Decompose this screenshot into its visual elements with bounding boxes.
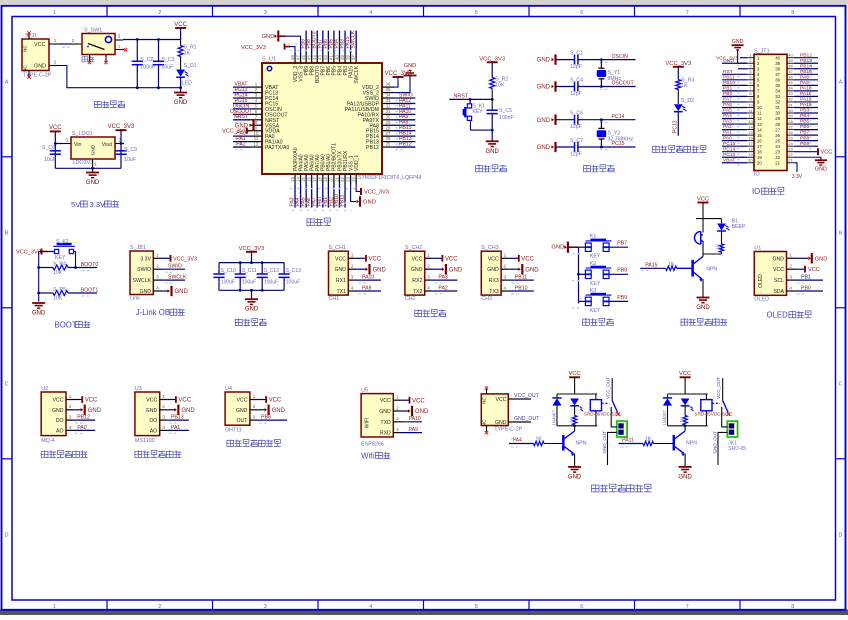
svg-text:1: 1	[118, 43, 121, 48]
pin 29 S_JT1	[787, 118, 794, 120]
pin 8 S_JT1	[747, 95, 754, 97]
wire GND JT1 pin2	[738, 50, 747, 63]
svg-text:KEY: KEY	[472, 109, 483, 115]
node PA1 U3	[168, 429, 189, 431]
svg-text:GND: GND	[525, 267, 539, 273]
pin 38 S_JT1	[787, 68, 794, 70]
pin 25 S_U1 PB12	[382, 146, 394, 148]
svg-text:PC13: PC13	[723, 152, 736, 158]
wire net PB14 right	[394, 135, 415, 137]
pin 3 S_U1 PC14	[250, 97, 262, 99]
pin 10 S_JT1	[747, 106, 754, 108]
svg-text:2: 2	[253, 404, 256, 409]
pin 1 S_SW1 unconnected	[115, 49, 124, 51]
relay contact PA11	[722, 378, 724, 400]
node PA2	[432, 290, 457, 292]
svg-text:4: 4	[69, 425, 72, 430]
svg-text:KEY: KEY	[55, 255, 66, 261]
svg-text:S_C1: S_C1	[570, 50, 583, 56]
pin 28 S_U1 PB15	[382, 130, 394, 132]
pin 3 S_JT1	[747, 68, 754, 70]
header S_JT1 40-pin	[754, 54, 787, 170]
svg-text:1N4007: 1N4007	[662, 410, 667, 426]
title main chip	[307, 218, 314, 225]
wire emitter PA11	[684, 454, 686, 467]
svg-text:33: 33	[788, 91, 793, 96]
svg-text:41: 41	[329, 55, 334, 60]
wire LED to PC13	[677, 112, 679, 136]
resistor S_R4 10K	[39, 267, 53, 269]
svg-text:19: 19	[323, 177, 328, 182]
svg-text:PB5: PB5	[800, 119, 810, 125]
node PA10 U5	[402, 421, 423, 423]
svg-text:40: 40	[775, 55, 780, 60]
port GND S_CH3	[509, 268, 519, 270]
svg-text:GND: GND	[495, 420, 507, 426]
svg-text:NC: NC	[482, 397, 487, 404]
svg-text:16: 16	[757, 138, 762, 143]
wire net SWCLK top	[355, 31, 357, 54]
port GND OLED	[795, 257, 808, 259]
ground relay PA11	[679, 466, 692, 468]
svg-text:GND_OUT: GND_OUT	[712, 431, 717, 454]
svg-text:12pF: 12pF	[570, 91, 582, 97]
node PB6 U4	[258, 419, 287, 421]
svg-text:13: 13	[757, 122, 762, 127]
title power circuit	[95, 101, 102, 108]
wire net VBAT left	[233, 86, 250, 88]
wire net PA7 bottom	[316, 185, 318, 208]
svg-text:Link: Link	[130, 296, 140, 302]
svg-text:33: 33	[775, 94, 780, 99]
svg-text:33: 33	[386, 98, 391, 103]
ground JT1 bottom	[815, 159, 827, 161]
svg-text:19: 19	[757, 155, 762, 160]
svg-text:U5: U5	[361, 388, 368, 394]
svg-text:PA2TX/A0: PA2TX/A0	[265, 145, 289, 151]
svg-text:SDA: SDA	[773, 289, 784, 295]
svg-text:2: 2	[162, 404, 165, 409]
wire net PA9 JT1 right	[794, 84, 818, 86]
pin 37 S_JT1	[787, 73, 794, 75]
pin 40 S_JT1	[787, 57, 794, 59]
connector S_CH1 serial	[329, 251, 349, 295]
svg-text:GND: GND	[272, 408, 286, 414]
svg-text:PA10: PA10	[800, 85, 812, 91]
svg-text:24: 24	[788, 141, 793, 146]
svg-text:GND: GND	[88, 408, 102, 414]
svg-text:PB10: PB10	[723, 80, 735, 86]
pin 36 S_U1 VDD_2	[382, 86, 394, 88]
svg-text:1: 1	[54, 38, 57, 43]
wire net PA8 right	[394, 124, 415, 126]
junction at C3 top	[157, 38, 160, 41]
svg-text:1: 1	[427, 253, 430, 258]
svg-text:VCC: VCC	[821, 150, 833, 156]
svg-text:VCC: VCC	[521, 256, 534, 262]
svg-text:1: 1	[351, 253, 354, 258]
svg-text:KEY: KEY	[590, 308, 601, 314]
svg-text:RST: RST	[723, 69, 733, 75]
svg-text:20: 20	[748, 158, 753, 163]
wire net PB13 JT1 right	[794, 62, 818, 64]
svg-text:26: 26	[788, 130, 793, 135]
svg-text:10K: 10K	[53, 295, 63, 301]
svg-text:VCC: VCC	[85, 398, 98, 404]
svg-text:NRST: NRST	[454, 93, 469, 99]
svg-text:2: 2	[427, 264, 430, 269]
svg-text:SWCLK: SWCLK	[168, 275, 187, 281]
wire net PB9 top	[305, 31, 307, 54]
svg-text:TX3: TX3	[489, 289, 499, 295]
svg-text:SWCLK: SWCLK	[133, 278, 152, 284]
port VCC U4	[258, 399, 266, 401]
svg-text:8: 8	[791, 604, 794, 610]
pin 33 S_U1 PA12/USBDP	[382, 102, 394, 104]
svg-text:14: 14	[295, 177, 300, 182]
svg-text:2: 2	[504, 264, 507, 269]
svg-text:GND: GND	[334, 267, 346, 273]
title key circuit	[583, 318, 590, 325]
svg-text:PC14: PC14	[612, 114, 625, 120]
svg-text:14: 14	[757, 127, 762, 132]
wire net PA6 bottom	[311, 185, 313, 208]
svg-text:NC: NC	[23, 45, 28, 52]
wire net GND JT1 left	[722, 62, 747, 64]
svg-text:GND: GND	[379, 409, 391, 415]
wire contact to connector PA4	[611, 407, 617, 427]
port GND U5	[402, 410, 409, 412]
svg-text:39: 39	[775, 61, 780, 66]
port VCC U3	[168, 399, 176, 401]
svg-text:S_JT1: S_JT1	[754, 48, 770, 54]
pin 39 S_JT1	[787, 62, 794, 64]
svg-text:STM32F103C8T6_LQFP48: STM32F103C8T6_LQFP48	[358, 175, 422, 181]
wire VDD_2 to VCC_3V3	[394, 77, 398, 87]
pin 43 S_U1 PB7	[322, 53, 324, 63]
svg-text:15: 15	[301, 177, 306, 182]
svg-text:B: B	[839, 230, 843, 236]
svg-text:S_JB1: S_JB1	[130, 245, 146, 251]
ground LDO	[92, 168, 94, 172]
svg-text:PA11: PA11	[800, 91, 812, 97]
svg-text:VCC: VCC	[335, 256, 346, 262]
wire ground rail power circuit	[137, 87, 180, 89]
port GND crystal row 1	[552, 58, 554, 62]
svg-text:4: 4	[396, 427, 399, 432]
svg-text:VCC: VCC	[445, 256, 458, 262]
wire base PA11	[619, 443, 644, 445]
node VCC_OUT	[508, 398, 531, 400]
svg-text:1: 1	[396, 395, 399, 400]
pin 1 LDO GND	[92, 159, 94, 168]
svg-text:4: 4	[369, 10, 372, 16]
port GND crystal row 4	[552, 145, 554, 149]
svg-text:12: 12	[748, 113, 753, 118]
svg-text:PA3: PA3	[723, 119, 732, 125]
pin 21 S_U1 PB10/TX	[338, 174, 340, 185]
svg-text:S_C7: S_C7	[570, 138, 583, 144]
svg-text:GND_OUT: GND_OUT	[602, 431, 607, 454]
key K2	[579, 273, 586, 275]
power port VCC_3V3 below chip	[360, 188, 362, 195]
svg-text:7: 7	[686, 604, 689, 610]
svg-text:18: 18	[757, 149, 762, 154]
svg-text:VCC: VCC	[488, 256, 499, 262]
svg-text:VCC: VCC	[697, 196, 709, 202]
wire key K1 output	[609, 246, 628, 248]
svg-text:PB10: PB10	[515, 285, 528, 291]
svg-text:OLED: OLED	[758, 274, 764, 288]
svg-text:RXD: RXD	[380, 431, 391, 437]
connector S_J1 TYPE-C-2P	[22, 39, 49, 71]
svg-text:OUT: OUT	[236, 418, 248, 424]
connector JK relay PA11	[727, 421, 737, 437]
svg-text:GND: GND	[696, 305, 710, 311]
pin 22 S_U1 PB11/RX	[344, 174, 346, 185]
svg-text:4: 4	[789, 285, 792, 290]
wire switch output to VCC rail	[123, 39, 181, 41]
wire relay bottom rail PA11	[668, 425, 708, 427]
pin 4 S_U1 PC15	[250, 102, 262, 104]
capacitor S_C6 12pF	[556, 119, 575, 121]
svg-text:PB14: PB14	[800, 63, 812, 69]
svg-text:PA10: PA10	[362, 275, 374, 281]
svg-text:GND_OUT: GND_OUT	[514, 416, 540, 422]
svg-text:S_C12: S_C12	[264, 268, 280, 274]
wire net PA10 JT1 right	[794, 90, 818, 92]
wire VSS_2 to GND	[394, 76, 410, 93]
pin 20 S_JT1	[747, 162, 754, 164]
svg-text:35: 35	[386, 87, 391, 92]
ground relay PA4	[568, 466, 581, 468]
pin 32 S_JT1	[787, 101, 794, 103]
port GND crystal row 2	[552, 85, 554, 89]
junction crystal Y1 bottom	[600, 85, 603, 88]
wire net PA1 JT1 left	[722, 134, 747, 136]
svg-text:4: 4	[369, 604, 372, 610]
svg-text:2: 2	[69, 404, 72, 409]
title reset circuit	[476, 165, 483, 172]
wire net PA7 JT1 left	[722, 101, 747, 103]
pin 7 S_U1 NRST	[250, 119, 262, 121]
svg-text:S_LDO1: S_LDO1	[72, 131, 93, 137]
svg-text:5: 5	[475, 10, 478, 16]
svg-text:PB6: PB6	[261, 415, 271, 421]
svg-text:12pF: 12pF	[570, 124, 582, 130]
svg-text:4: 4	[351, 285, 354, 290]
svg-text:S_CH3: S_CH3	[481, 245, 498, 251]
svg-text:K3: K3	[590, 288, 596, 294]
svg-text:100uF: 100uF	[286, 279, 300, 285]
pin 16 S_JT1	[747, 140, 754, 142]
wire net PA0 left	[233, 135, 250, 137]
svg-text:10: 10	[748, 102, 753, 107]
svg-text:PB11: PB11	[340, 194, 346, 206]
node PB1	[795, 279, 823, 281]
svg-text:1: 1	[156, 253, 159, 258]
svg-text:TXD: TXD	[380, 420, 391, 426]
crystal S_Y2 32.768KHz	[600, 120, 602, 129]
pin 35 S_JT1	[787, 84, 794, 86]
capacitor S_C10 100uF	[218, 263, 220, 274]
svg-text:2: 2	[158, 604, 161, 610]
wire GND_OUT to connector PA11	[718, 432, 727, 465]
svg-text:PA3: PA3	[438, 275, 448, 281]
svg-text:GND: GND	[772, 256, 784, 262]
wire net OSCIN left	[233, 108, 250, 110]
pin 13 S_U1 PA3RX/A0	[294, 174, 296, 185]
key K1	[579, 246, 586, 248]
ground alarm	[697, 297, 710, 299]
svg-text:A: A	[5, 79, 9, 85]
wire net SWIO right	[394, 97, 415, 99]
svg-text:S_C4: S_C4	[570, 77, 583, 83]
pin 8 S_U1 VSSA	[250, 124, 262, 126]
svg-text:GND: GND	[568, 474, 582, 480]
pin 27 S_JT1	[787, 129, 794, 131]
svg-text:44: 44	[312, 55, 317, 60]
capacitor S_C2 100uF	[136, 40, 138, 62]
wire relay bottom rail PA4	[557, 425, 597, 427]
svg-text:32: 32	[775, 100, 780, 105]
svg-text:SWCLK: SWCLK	[351, 30, 357, 48]
title relay control circuit	[591, 484, 599, 492]
wire relay top rail PA4	[557, 393, 597, 395]
svg-text:3: 3	[118, 34, 121, 39]
svg-text:J-Link OB: J-Link OB	[136, 308, 170, 317]
pin 47 S_U1 VSS_3	[300, 53, 302, 63]
junction crystal Y2 top	[600, 118, 603, 121]
svg-text:B: B	[5, 230, 9, 236]
svg-text:Vout: Vout	[102, 142, 113, 148]
svg-text:3.3V: 3.3V	[90, 200, 107, 209]
svg-text:18: 18	[318, 177, 323, 182]
svg-text:3: 3	[65, 137, 68, 142]
wire VCC_3V3 to VDD_3	[290, 47, 295, 55]
wire net PB5 top	[333, 31, 335, 54]
svg-text:VCC: VCC	[49, 125, 62, 131]
svg-text:U3: U3	[135, 386, 142, 392]
svg-text:6: 6	[580, 10, 583, 16]
pin 11 S_JT1	[747, 112, 754, 114]
svg-text:23: 23	[345, 177, 350, 182]
port GND at S_U1 VSSA	[250, 123, 252, 127]
svg-text:3.3V: 3.3V	[140, 256, 151, 262]
port VCC U2	[74, 399, 82, 401]
resistor S_R2 10K	[490, 78, 495, 89]
capacitor S_C8 10uF	[50, 150, 61, 152]
svg-text:3: 3	[264, 10, 267, 16]
wire net PB4 JT1 right	[794, 118, 818, 120]
svg-text:37: 37	[351, 55, 356, 60]
svg-text:1K: 1K	[716, 243, 722, 250]
svg-text:35: 35	[775, 83, 780, 88]
svg-text:S_U1: S_U1	[262, 57, 276, 63]
svg-text:VBAT: VBAT	[723, 157, 735, 163]
pin 32 S_U1 PA11/USB/DM	[382, 108, 394, 110]
svg-text:VCC: VCC	[808, 267, 820, 273]
svg-text:OLED: OLED	[767, 311, 789, 320]
svg-text:21: 21	[775, 160, 780, 165]
pin 20 S_U1 PB2/BOOT1	[333, 174, 335, 185]
svg-text:PA4: PA4	[513, 437, 523, 443]
svg-text:BEEP: BEEP	[732, 224, 746, 230]
svg-text:BOOT1: BOOT1	[81, 287, 99, 293]
svg-text:1: 1	[69, 394, 72, 399]
svg-text:S_C5: S_C5	[499, 108, 512, 114]
wire keys left bus	[578, 247, 580, 303]
svg-text:31: 31	[788, 102, 793, 107]
svg-text:28: 28	[386, 125, 391, 130]
svg-text:S_C11: S_C11	[242, 268, 257, 274]
node SWIO	[162, 268, 185, 270]
svg-text:S_D1: S_D1	[184, 63, 197, 69]
port GND S_CH2	[432, 268, 442, 270]
svg-text:2: 2	[54, 59, 57, 64]
svg-text:22: 22	[788, 152, 793, 157]
svg-text:43: 43	[318, 55, 323, 60]
svg-text:17: 17	[757, 144, 762, 149]
svg-text:GND: GND	[537, 85, 551, 91]
key K3	[579, 300, 586, 302]
resistor 1K relay PA11	[684, 406, 686, 416]
svg-text:47: 47	[295, 55, 300, 60]
capacitor S_C3 10uF	[158, 40, 160, 62]
svg-text:3.3V: 3.3V	[792, 174, 803, 180]
svg-text:DO: DO	[56, 418, 64, 424]
svg-text:PB13: PB13	[171, 415, 184, 421]
svg-text:S_SW1: S_SW1	[84, 28, 102, 34]
svg-text:5V: 5V	[71, 200, 81, 209]
svg-text:PB4: PB4	[800, 113, 810, 119]
wire net PB3 JT1 right	[794, 112, 818, 114]
wire left vertical BOOT	[39, 252, 48, 302]
wire VCC_3V3 to key S_K2	[48, 251, 55, 253]
pin 6 S_U1 OSCOUT	[250, 113, 262, 115]
svg-text:VCC: VCC	[53, 398, 64, 404]
svg-text:1K: 1K	[569, 416, 574, 423]
svg-text:36: 36	[775, 78, 780, 83]
node PB12 U2	[74, 419, 95, 421]
svg-text:VCC: VCC	[369, 256, 382, 262]
svg-text:10uF: 10uF	[44, 157, 56, 163]
pin TYPE-C top stub	[486, 389, 488, 394]
wire emitter PA4	[574, 454, 576, 467]
svg-text:GND: GND	[91, 144, 97, 155]
capacitor S_C13 100uF	[283, 263, 285, 274]
svg-text:PB1: PB1	[723, 85, 733, 91]
svg-text:10K: 10K	[53, 270, 63, 276]
wire VSS_1 to GND port	[351, 185, 356, 202]
svg-text:14: 14	[748, 124, 753, 129]
svg-text:A: A	[839, 79, 843, 85]
node GND_OUT	[508, 421, 531, 423]
pin 15 S_U1 PA5/A0	[305, 174, 307, 185]
svg-text:8MHz: 8MHz	[608, 76, 622, 82]
wire net PA4 bottom	[300, 185, 302, 208]
svg-text:100uF: 100uF	[221, 279, 235, 285]
svg-text:D: D	[5, 532, 9, 538]
svg-text:S_C9: S_C9	[124, 147, 137, 153]
svg-text:7: 7	[686, 10, 689, 16]
pin 14 S_U1 PA4/A0	[300, 174, 302, 185]
pin 26 S_U1 PB13	[382, 141, 394, 143]
ground reset circuit	[491, 130, 493, 141]
node PB0	[795, 290, 823, 292]
svg-text:3: 3	[264, 604, 267, 610]
svg-text:GND: GND	[181, 408, 195, 414]
